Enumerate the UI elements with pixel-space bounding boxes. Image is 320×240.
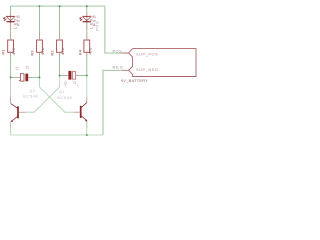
- resistor R2: [57, 40, 63, 52]
- svg-text:RED: RED: [93, 14, 97, 26]
- svg-text:NEG: NEG: [112, 64, 123, 69]
- junction bottom rail at Q1 emitter: [86, 134, 88, 136]
- wire: net N$3 C2 row left: [60, 75, 69, 77]
- wire: net NEG right riser: [103, 70, 122, 135]
- junction top rail at R3: [39, 5, 41, 7]
- wire: net N$4 C2 row right: [76, 75, 87, 77]
- wire: net NEG Q2 emitter to bottom rail: [10, 122, 12, 135]
- svg-text:R2: R2: [49, 50, 54, 56]
- svg-text:R1: R1: [0, 49, 5, 55]
- svg-text:SUP_POS: SUP_POS: [136, 51, 158, 56]
- svg-text:470: 470: [87, 47, 92, 54]
- resistor R1: [8, 40, 14, 52]
- wire: cross coupling R3 node to Q1 base: [40, 87, 74, 112]
- junction top rail at R4: [86, 5, 88, 7]
- wire: branch R3 vertical: [39, 6, 41, 77]
- junction C2 left: [59, 75, 61, 77]
- label C2 value (tiny): [73, 81, 79, 87]
- transistor Q1 (BC548): [74, 103, 88, 122]
- LED LED2: [79, 13, 91, 31]
- capacitor C2: [68, 71, 75, 80]
- svg-text:47k: 47k: [60, 47, 65, 54]
- wire: net NEG Q1 emitter to bottom rail: [86, 121, 88, 135]
- svg-text:SUP_NEG: SUP_NEG: [136, 67, 158, 72]
- wire: branch LED1/R1 vertical: [10, 6, 12, 77]
- svg-text:47k: 47k: [40, 47, 45, 54]
- capacitor C1: [19, 74, 28, 82]
- junction C1 right: [39, 76, 41, 78]
- connector X1 9V battery: [122, 49, 196, 77]
- wire: branch R2 vertical: [59, 6, 61, 75]
- transistor Q2 (BC548, mirrored): [11, 104, 26, 122]
- svg-text:BC548: BC548: [23, 95, 38, 99]
- svg-text:RED: RED: [16, 14, 20, 26]
- wire: net POS right drop to connector: [105, 6, 122, 53]
- svg-text:9V_BATTERY: 9V_BATTERY: [121, 78, 148, 83]
- label C1 name (tiny): [16, 67, 19, 70]
- svg-text:BC548: BC548: [57, 96, 72, 100]
- svg-text:Q1: Q1: [59, 90, 65, 94]
- svg-text:R3: R3: [29, 50, 34, 56]
- wire: cross coupling R2 node to Q2 base: [26, 87, 60, 112]
- wire: net NEG bottom rail: [11, 134, 103, 136]
- junction C1 left: [10, 76, 12, 78]
- label C2 name (tiny): [64, 82, 66, 87]
- junction C2 right: [86, 75, 88, 77]
- wire: branch LED2/R4 vertical: [86, 6, 88, 75]
- label C1 value (tiny): [26, 66, 29, 69]
- resistor R3: [37, 40, 43, 52]
- junction top rail at R2: [59, 5, 61, 7]
- wire: net N$2 C1 row right: [28, 76, 39, 78]
- svg-text:POS: POS: [112, 49, 122, 54]
- wire: net POS top rail: [11, 5, 105, 7]
- svg-text:R4: R4: [78, 49, 83, 55]
- svg-text:470: 470: [11, 47, 16, 54]
- resistor R4: [84, 40, 90, 52]
- svg-text:Q2: Q2: [30, 89, 36, 93]
- wire: net N$1 C1 row left: [11, 76, 21, 78]
- LED LED1: [3, 13, 15, 31]
- wire pins (stubs): [11, 32, 87, 128]
